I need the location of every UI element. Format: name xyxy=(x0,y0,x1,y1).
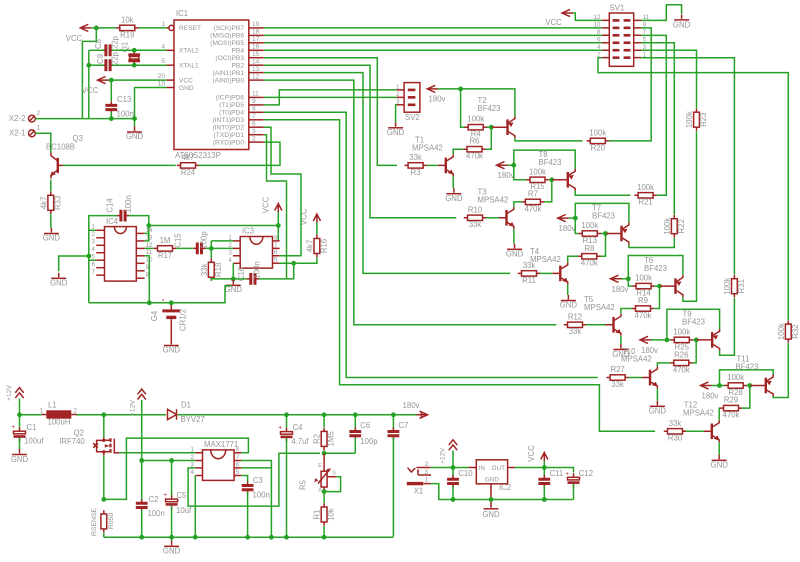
svg-text:100k: 100k xyxy=(635,274,652,283)
svg-text:33k: 33k xyxy=(200,263,209,276)
svg-text:MPSA42: MPSA42 xyxy=(683,409,714,418)
wire PB7 to SV1 pin10 xyxy=(264,27,602,29)
svg-text:GND: GND xyxy=(445,194,463,203)
svg-text:100n: 100n xyxy=(117,110,134,119)
svg-text:IRF740: IRF740 xyxy=(59,437,85,446)
svg-text:+12V: +12V xyxy=(130,400,137,417)
svg-text:S: S xyxy=(332,471,336,477)
wire MAX pin4 to ground rail xyxy=(193,476,198,540)
svg-text:R21: R21 xyxy=(638,198,652,207)
capacitor C12 electrolytic xyxy=(565,469,593,500)
svg-text:1: 1 xyxy=(40,408,44,415)
svg-text:BF423: BF423 xyxy=(736,363,759,372)
wire IC4 bottom rail to battery and IC3 ground xyxy=(89,286,232,305)
svg-text:6: 6 xyxy=(236,461,240,468)
svg-text:C6: C6 xyxy=(360,421,370,430)
svg-text:IC4: IC4 xyxy=(106,217,119,226)
transistor T1 MPSA42 xyxy=(412,136,454,177)
svg-text:2: 2 xyxy=(74,408,78,415)
connector X1 power jack xyxy=(407,461,431,496)
svg-text:(AIN1)PB1: (AIN1)PB1 xyxy=(212,70,244,77)
svg-text:33k: 33k xyxy=(611,380,624,389)
ground (T10) xyxy=(649,401,667,416)
resistor R12 33k xyxy=(564,312,586,336)
wire VCC line IC4 to IC3 pin8 xyxy=(149,223,281,241)
svg-text:8: 8 xyxy=(252,106,256,113)
svg-text:33k: 33k xyxy=(469,220,482,229)
wire T1 emitter to ground xyxy=(452,176,454,188)
ground (G4) xyxy=(163,340,181,355)
connector SV2 xyxy=(396,83,420,122)
wire C14 right to VCC line and IC4 pin13/pin14 xyxy=(129,216,151,241)
wire IC4 ground spur xyxy=(59,256,89,271)
resistor R1 10k xyxy=(313,492,336,540)
resistor R19 10k (reset pull-up) xyxy=(116,15,138,39)
ground (IC3) xyxy=(225,280,243,294)
resistor R14 100k xyxy=(632,274,654,298)
ground (supply rail) xyxy=(163,537,181,555)
capacitor C14 100n xyxy=(106,195,133,221)
svg-text:SV1: SV1 xyxy=(610,4,625,13)
svg-text:3: 3 xyxy=(92,239,96,246)
svg-text:R11: R11 xyxy=(522,276,536,285)
svg-text:100n: 100n xyxy=(253,491,270,500)
svg-text:(AIN0)PB0: (AIN0)PB0 xyxy=(212,77,244,84)
transistor Q3 BC108B (mirrored npn) xyxy=(46,134,83,178)
svg-text:R12: R12 xyxy=(568,312,582,321)
svg-text:R32: R32 xyxy=(791,324,800,338)
svg-text:R25: R25 xyxy=(675,342,690,351)
wire PB3 to R3 (T1 base line) xyxy=(264,58,397,166)
IC4 logic IC xyxy=(92,217,153,281)
IC5 MAX1771 controller xyxy=(191,440,242,481)
capacitor C11 xyxy=(538,468,563,502)
ground (IC2) xyxy=(482,503,500,519)
svg-text:+12V: +12V xyxy=(6,385,13,402)
svg-text:VCC: VCC xyxy=(179,77,193,84)
svg-text:(SCK)PB7: (SCK)PB7 xyxy=(214,25,245,32)
svg-text:GND: GND xyxy=(649,407,667,416)
pad X2-1 xyxy=(9,125,40,138)
transistor T7 BF423 xyxy=(592,204,629,245)
ground (T12) xyxy=(711,455,729,470)
svg-text:R16: R16 xyxy=(320,239,329,253)
svg-text:IC1: IC1 xyxy=(176,9,188,18)
capacitor C13 100n xyxy=(105,95,133,119)
net 180v flag (T11) xyxy=(701,382,719,401)
svg-text:2: 2 xyxy=(92,231,96,238)
capacitor C8 22p xyxy=(94,35,120,56)
svg-text:R31: R31 xyxy=(737,279,746,293)
IC3 logic IC xyxy=(228,227,279,269)
wire T5 collector to R9 xyxy=(621,309,632,314)
svg-text:10k: 10k xyxy=(327,508,336,521)
resistor R26 470k xyxy=(670,350,692,374)
svg-text:C1: C1 xyxy=(27,423,37,432)
wire R31 to SV1 pin1 xyxy=(641,58,734,275)
svg-text:GND: GND xyxy=(163,346,181,355)
svg-text:(MOSI)PB5: (MOSI)PB5 xyxy=(210,40,244,47)
svg-text:100n: 100n xyxy=(253,261,262,278)
wire T9 collector to R31 bottom xyxy=(720,298,735,356)
wire PB1 to R11 (T4 base line) xyxy=(264,73,511,274)
capacitor C16 100n xyxy=(237,261,262,284)
ground (R33) xyxy=(43,228,61,243)
wire PB5 to SV1 pin6 xyxy=(264,42,602,44)
net 180v flag (T8) xyxy=(497,162,515,180)
IC1 AT90S2313P microcontroller xyxy=(158,9,264,160)
svg-text:C10: C10 xyxy=(458,469,473,478)
svg-text:180v: 180v xyxy=(429,95,446,104)
svg-text:16: 16 xyxy=(252,44,260,51)
wire R11 to T4 base xyxy=(540,272,552,274)
wire +12V rail to L1 xyxy=(20,414,42,416)
wire R9 to T6 base node xyxy=(654,284,662,309)
svg-text:XTAL1: XTAL1 xyxy=(179,63,199,70)
svg-text:MPSA42: MPSA42 xyxy=(478,196,509,205)
wire 180v to T6 emitter loop and R14 xyxy=(622,256,683,287)
svg-text:180v: 180v xyxy=(559,224,576,233)
wire Q3 base to R24 xyxy=(63,164,176,166)
svg-text:(ICP)PD6: (ICP)PD6 xyxy=(216,95,245,102)
svg-text:C9: C9 xyxy=(96,54,105,64)
svg-text:22p: 22p xyxy=(111,51,120,65)
svg-text:5: 5 xyxy=(274,257,278,264)
wire L1 to D1 with Q2 drain tap xyxy=(77,412,167,417)
svg-text:R15: R15 xyxy=(530,182,545,191)
resistor R33 4k7 xyxy=(39,192,62,214)
svg-text:17: 17 xyxy=(252,36,260,43)
wire 180v to T8 emitter loop and R15 xyxy=(508,150,576,180)
supply symbol VCC (IC3) xyxy=(262,196,282,225)
wire C14 left to IC4 pin1 leg xyxy=(86,216,117,303)
svg-text:180v: 180v xyxy=(702,392,719,401)
wire T12 collector to R29 xyxy=(718,408,721,420)
wire MAX pin3 FB loop to divider xyxy=(188,453,320,506)
wire XTAL2 net: pin4 - crystal top - C8 xyxy=(89,48,167,53)
svg-text:6: 6 xyxy=(92,261,96,268)
wire IC4 pin11 down to rail xyxy=(145,256,152,305)
svg-text:4: 4 xyxy=(228,257,232,264)
ground (T3) xyxy=(506,244,524,259)
wire V+ line to MAX pin2 and C5 xyxy=(142,458,196,463)
wire FB node R2 bottom xyxy=(322,450,356,455)
svg-text:180v: 180v xyxy=(403,401,420,410)
capacitor C6 100p xyxy=(349,415,378,453)
supply symbol +12V (IC2) xyxy=(440,440,458,468)
wire PD6 to SV2 pin2 xyxy=(264,96,397,98)
svg-text:6: 6 xyxy=(274,249,278,256)
wire R29 to T11 base node xyxy=(742,383,752,408)
svg-text:180v: 180v xyxy=(641,346,658,355)
ground (IC1) xyxy=(126,127,144,142)
pad X2-2 xyxy=(9,110,40,123)
wire T10 emitter to ground xyxy=(656,389,658,401)
svg-text:R23: R23 xyxy=(699,113,708,127)
wire Q3 emitter to R33 xyxy=(50,180,52,192)
supply symbol VCC (reset) xyxy=(66,24,92,43)
battery G4 CR1/2 xyxy=(150,300,188,343)
svg-text:G4: G4 xyxy=(150,310,159,321)
wire C15 to IC3 pin2 node xyxy=(206,241,234,251)
svg-text:BF423: BF423 xyxy=(644,264,667,273)
svg-text:4: 4 xyxy=(161,43,165,50)
wire T10 collector to R26 xyxy=(657,363,670,367)
capacitor C2 100n xyxy=(136,495,165,537)
wire R5 wiper to bottom node xyxy=(322,477,341,494)
svg-text:10k: 10k xyxy=(121,15,134,24)
capacitor C7 xyxy=(388,415,409,537)
wire R8 to T7 base node xyxy=(600,231,607,256)
wire T11 collector to R32 bottom xyxy=(773,343,788,397)
svg-text:470k: 470k xyxy=(673,365,690,374)
wire T4 collector to R8 xyxy=(568,256,579,262)
ground (C1) xyxy=(11,449,29,464)
svg-text:VCC: VCC xyxy=(82,86,99,95)
wire PD1 to IC3 pin5 node xyxy=(264,135,287,279)
wire T7 collector to R22 bottom xyxy=(629,238,674,248)
svg-text:2: 2 xyxy=(37,110,41,117)
wire R32 to SV1 pin2 xyxy=(598,58,788,320)
svg-text:R28: R28 xyxy=(729,388,743,397)
wire IC2 OUT to VCC and caps xyxy=(515,465,573,472)
wire T8 collector to R21 xyxy=(575,191,630,196)
svg-text:R17: R17 xyxy=(158,251,172,260)
svg-text:3: 3 xyxy=(424,469,428,476)
svg-text:470k: 470k xyxy=(723,411,740,420)
diode D1 BYV27 xyxy=(168,401,205,425)
wire VCC net down to X2-2 rail xyxy=(82,28,96,119)
svg-text:OUT: OUT xyxy=(492,465,506,472)
resistor R6 470k xyxy=(463,137,485,161)
wire R20 to SV1 pin9 xyxy=(609,28,651,141)
resistor R27 33k xyxy=(606,365,628,389)
transistor T6 BF423 xyxy=(644,256,683,297)
wire C16 right to pin5 node xyxy=(259,261,296,279)
wire R13 to T7 base xyxy=(601,233,606,235)
capacitor C15 100p xyxy=(174,231,209,255)
capacitor C1 100uf xyxy=(11,415,44,449)
svg-text:C8: C8 xyxy=(94,39,103,49)
wire R18 bottom to IC3 ground node xyxy=(211,279,233,281)
transistor T2 BF423 xyxy=(478,96,515,138)
svg-text:(INT1)PD3: (INT1)PD3 xyxy=(212,117,244,124)
svg-text:1: 1 xyxy=(396,84,400,91)
resistor R29 470k xyxy=(720,396,742,420)
resistor R30 33k xyxy=(664,419,686,443)
svg-text:GND: GND xyxy=(482,510,500,519)
svg-text:R050: R050 xyxy=(108,513,115,529)
svg-text:(RXD)PD0: (RXD)PD0 xyxy=(213,139,244,146)
resistor R21 100k xyxy=(634,183,656,207)
net 180v flag (T9) xyxy=(640,336,658,355)
supply symbol +12V (input) xyxy=(6,385,24,418)
svg-text:33k: 33k xyxy=(669,419,682,428)
svg-text:2: 2 xyxy=(252,135,256,142)
wire MAX pin6 pin7 to ground rail xyxy=(241,461,273,540)
wire R30 to T12 base xyxy=(686,430,704,432)
inductor L1 100uH xyxy=(40,401,78,427)
svg-text:180v: 180v xyxy=(612,285,629,294)
resistor RSENSE R050 xyxy=(91,508,115,538)
svg-text:E: E xyxy=(318,463,322,469)
resistor R7 470k xyxy=(522,189,544,213)
svg-text:1: 1 xyxy=(37,125,41,132)
wire R26 to T9 base node xyxy=(692,338,698,363)
transistor T3 MPSA42 xyxy=(478,188,515,229)
svg-text:11: 11 xyxy=(252,91,259,98)
svg-text:IC2: IC2 xyxy=(499,483,511,492)
wire Q2 source to RSENSE and CS line xyxy=(101,438,248,502)
svg-text:MPSA42: MPSA42 xyxy=(412,144,443,153)
wire PB4 to SV1 pin4 xyxy=(264,49,602,51)
svg-text:GND: GND xyxy=(506,250,524,259)
svg-text:BF423: BF423 xyxy=(682,318,705,327)
ground (SV2) xyxy=(387,122,405,137)
wire T2 collector to R20 xyxy=(515,138,583,141)
svg-text:D1: D1 xyxy=(181,401,191,410)
svg-text:100k: 100k xyxy=(727,373,744,382)
svg-text:33k: 33k xyxy=(569,327,582,336)
svg-text:2: 2 xyxy=(191,454,195,461)
svg-text:8: 8 xyxy=(274,234,278,241)
svg-text:4: 4 xyxy=(191,469,195,476)
svg-text:C7: C7 xyxy=(398,421,408,430)
svg-text:470k: 470k xyxy=(466,152,483,161)
resistor R11 33k xyxy=(518,261,540,285)
svg-text:1: 1 xyxy=(425,477,429,484)
transistor T4 MPSA42 xyxy=(530,247,568,284)
supply symbol VCC (SV1 pin12) xyxy=(545,9,573,27)
wire 180v to T7 emitter loop and R13 xyxy=(569,203,629,233)
transistor T5 MPSA42 xyxy=(584,295,621,336)
svg-text:1: 1 xyxy=(161,21,165,28)
wire T6 collector to R23 bottom xyxy=(683,131,697,301)
wire T1 collector to R6 xyxy=(453,149,463,154)
svg-text:L1: L1 xyxy=(48,401,57,410)
svg-text:C11: C11 xyxy=(550,469,564,478)
svg-text:2: 2 xyxy=(396,91,400,98)
wire R14 to T6 base xyxy=(655,285,660,287)
svg-text:C13: C13 xyxy=(117,95,131,104)
wire PB0 to R12 (T5 base line) xyxy=(264,80,557,325)
wire pin10 GND to ground xyxy=(132,88,167,127)
resistor R22 100k xyxy=(663,215,686,237)
transistor Q2 IRF740 mosfet xyxy=(59,415,114,500)
capacitor C9 22p xyxy=(96,51,120,71)
svg-text:10: 10 xyxy=(158,81,166,88)
svg-text:RESET: RESET xyxy=(179,25,201,32)
svg-text:C12: C12 xyxy=(579,469,593,478)
wire 180v to T2 emitter and R4 xyxy=(438,87,515,128)
wire R24 to PD0 (RXD) xyxy=(199,142,280,165)
wire IC4 pin12 to R17 xyxy=(145,247,154,249)
svg-text:R33: R33 xyxy=(53,196,62,210)
capacitor C4 4.7uf xyxy=(278,415,309,540)
svg-text:GND: GND xyxy=(485,477,500,484)
wire R25 to T9 base xyxy=(693,339,696,341)
resistor R28 100k xyxy=(725,373,747,397)
resistor R16 4k7 xyxy=(306,235,329,257)
svg-text:R3: R3 xyxy=(411,168,421,177)
svg-text:9: 9 xyxy=(252,98,256,105)
svg-text:6: 6 xyxy=(252,120,256,127)
wire 180v to T11 emitter loop and R28 xyxy=(712,370,774,388)
svg-text:7: 7 xyxy=(236,454,240,461)
svg-text:+12V: +12V xyxy=(440,448,447,465)
wire XTAL1 net: pin5 - crystal bottom - C9 xyxy=(86,63,166,68)
supply symbol +12V (MAX1771) xyxy=(130,389,146,539)
svg-text:+: + xyxy=(565,470,569,477)
svg-text:R10: R10 xyxy=(468,205,483,214)
resistor R15 100k xyxy=(526,167,548,191)
resistor R3 33k xyxy=(404,153,426,177)
transistor T8 BF423 xyxy=(539,150,576,191)
svg-text:8: 8 xyxy=(236,446,240,453)
wire X2-2 rail xyxy=(35,118,134,120)
svg-text:R2: R2 xyxy=(313,434,322,444)
svg-text:CR1/2: CR1/2 xyxy=(179,309,188,331)
wire C15 node down to R18 xyxy=(210,248,212,258)
svg-text:100k: 100k xyxy=(685,111,694,128)
svg-text:C5: C5 xyxy=(177,491,188,500)
wire R17 to C15 xyxy=(176,247,193,249)
svg-text:R20: R20 xyxy=(591,143,606,152)
svg-text:GND: GND xyxy=(673,21,691,30)
svg-text:19: 19 xyxy=(252,21,260,28)
resistor R9 470k xyxy=(632,296,654,320)
wire IC3 pin4 to ground xyxy=(231,263,236,281)
wire VCC to R19 to RESET pin xyxy=(91,26,166,31)
wire T3 emitter to ground xyxy=(513,229,515,244)
resistor R2 1M5 xyxy=(313,415,336,450)
svg-text:A: A xyxy=(318,488,322,494)
potentiometer R5 xyxy=(299,453,337,493)
svg-text:4k7: 4k7 xyxy=(306,240,315,253)
svg-text:+: + xyxy=(278,425,282,432)
svg-text:R22: R22 xyxy=(677,219,686,233)
wire R33 to ground xyxy=(50,214,52,228)
svg-text:SV2: SV2 xyxy=(405,113,420,122)
svg-text:14: 14 xyxy=(252,58,260,65)
svg-text:+: + xyxy=(11,424,15,431)
svg-text:BF423: BF423 xyxy=(478,104,501,113)
svg-text:1M5: 1M5 xyxy=(327,431,336,447)
svg-text:100p: 100p xyxy=(360,437,378,446)
svg-text:R18: R18 xyxy=(214,263,223,277)
svg-text:MPSA42: MPSA42 xyxy=(530,255,561,264)
svg-text:GND: GND xyxy=(179,85,194,92)
ground (SV1) xyxy=(673,14,691,29)
svg-text:4: 4 xyxy=(92,246,96,253)
wire T3 collector to R7 xyxy=(514,202,522,207)
connector SV1 xyxy=(594,4,650,67)
svg-text:100k: 100k xyxy=(663,218,672,235)
svg-text:X1: X1 xyxy=(414,487,424,496)
wire ground rail through C16 xyxy=(233,278,247,280)
svg-text:VCC: VCC xyxy=(545,18,562,27)
svg-text:100k: 100k xyxy=(637,183,654,192)
svg-text:100p: 100p xyxy=(199,231,208,249)
svg-text:(OCI)PB3: (OCI)PB3 xyxy=(215,55,244,62)
svg-text:2: 2 xyxy=(425,461,429,468)
svg-text:10uf: 10uf xyxy=(176,506,192,515)
svg-text:BYV27: BYV27 xyxy=(181,415,205,424)
svg-text:RSENSE: RSENSE xyxy=(91,508,98,536)
wire PB6 to SV1 pin8 xyxy=(264,34,602,36)
wire ground rail (supply) xyxy=(104,536,394,538)
wire R28 to T11 base xyxy=(747,385,750,387)
